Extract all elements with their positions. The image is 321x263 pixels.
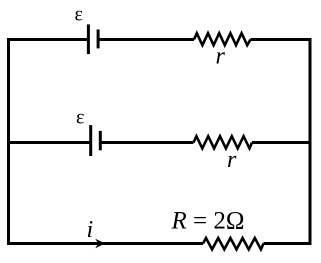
svg-text:R = 2Ω: R = 2Ω [171,208,245,235]
svg-text:r: r [216,44,226,70]
svg-text:r: r [227,147,237,173]
svg-text:ε: ε [75,4,83,26]
svg-text:i: i [87,217,94,243]
svg-text:ε: ε [76,107,84,129]
